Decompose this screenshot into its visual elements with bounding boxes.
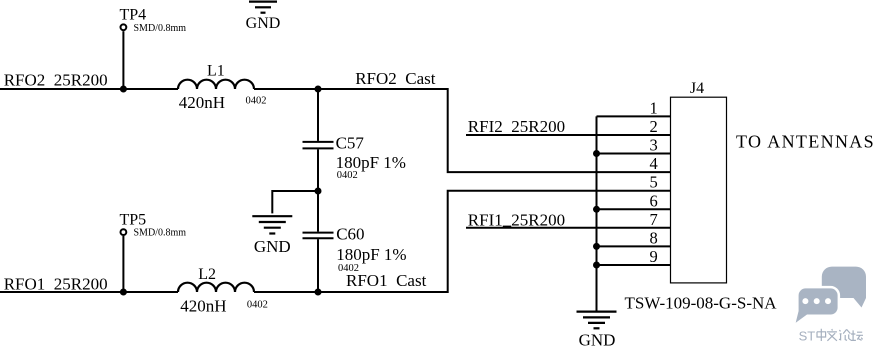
node junction bus pin 8 xyxy=(593,243,600,250)
wire L2 to node xyxy=(254,291,318,293)
svg-text:L1: L1 xyxy=(207,63,225,80)
ground symbol middle xyxy=(252,216,292,233)
svg-text:0402: 0402 xyxy=(247,300,268,311)
net name underscore on wire xyxy=(503,225,512,227)
svg-text:TSW-109-08-G-S-NA: TSW-109-08-G-S-NA xyxy=(625,294,778,313)
wire pin 8 xyxy=(597,245,671,247)
svg-text:C57: C57 xyxy=(336,134,365,153)
ground symbol top (cut off) xyxy=(249,2,277,13)
svg-text:TP4: TP4 xyxy=(120,7,147,24)
wire L1 to node xyxy=(254,88,318,90)
svg-text:RFO2 Cast: RFO2 Cast xyxy=(355,69,436,88)
node junction bus pin 6 xyxy=(593,206,600,213)
svg-text:0402: 0402 xyxy=(337,170,358,181)
wire pin 9 xyxy=(597,264,671,266)
wire RFO2_Cast to pin 4 xyxy=(318,89,671,172)
watermark text CJK strokes xyxy=(817,329,863,341)
node junction TP4/rail xyxy=(120,86,127,93)
test point TP5 xyxy=(121,229,127,235)
node junction bus pin 3 xyxy=(593,150,600,157)
svg-text:C60: C60 xyxy=(336,225,364,244)
svg-text:J4: J4 xyxy=(690,80,704,97)
svg-text:RFI2 25R200: RFI2 25R200 xyxy=(468,117,565,136)
svg-text:0402: 0402 xyxy=(246,96,267,107)
wire pin 3 xyxy=(597,153,671,155)
svg-text:420nH: 420nH xyxy=(179,93,225,112)
wire RFO1_Cast to pin 5 xyxy=(318,191,671,292)
svg-text:9: 9 xyxy=(650,247,658,266)
inductor L1 xyxy=(178,80,254,89)
svg-text:180pF 1%: 180pF 1% xyxy=(336,153,406,172)
capacitor C60 xyxy=(303,191,334,292)
wire TP5 stem xyxy=(122,236,124,292)
svg-text:SMD/0.8mm: SMD/0.8mm xyxy=(134,23,187,34)
wire RFI2 to pin 2 xyxy=(466,134,671,136)
svg-text:4: 4 xyxy=(650,154,658,173)
wire pin 6 xyxy=(597,208,671,210)
svg-text:GND: GND xyxy=(579,330,616,349)
svg-text:7: 7 xyxy=(650,210,658,229)
watermark chat bubble small xyxy=(796,288,838,322)
wire RFO2 rail left xyxy=(0,88,178,90)
watermark bubble dots xyxy=(802,298,831,304)
wire RFO1 rail left xyxy=(0,291,178,293)
svg-text:3: 3 xyxy=(650,136,658,155)
inductor L2 xyxy=(178,283,254,292)
svg-text:RFO2 25R200: RFO2 25R200 xyxy=(4,71,108,90)
connector J4 body xyxy=(671,97,727,283)
wire ground bus xyxy=(596,116,598,311)
node junction C60 bottom xyxy=(315,289,322,296)
node junction TP5/rail xyxy=(120,289,127,296)
watermark chat bubble large xyxy=(822,267,866,308)
svg-text:L2: L2 xyxy=(198,266,216,283)
svg-text:1: 1 xyxy=(650,98,658,117)
capacitor C57 xyxy=(303,89,334,191)
wire RFI1 to pin 7 xyxy=(466,227,671,229)
svg-text:8: 8 xyxy=(650,228,658,247)
svg-text:GND: GND xyxy=(246,15,281,32)
svg-text:RFO1 Cast: RFO1 Cast xyxy=(346,271,427,290)
wire to ground xyxy=(272,191,318,213)
svg-text:180pF 1%: 180pF 1% xyxy=(336,245,406,264)
svg-text:TP5: TP5 xyxy=(120,211,147,228)
svg-text:2: 2 xyxy=(650,117,658,136)
ground symbol bottom xyxy=(577,312,617,329)
node junction C57 top xyxy=(315,86,322,93)
svg-text:RFO1 25R200: RFO1 25R200 xyxy=(4,274,108,293)
wire TP4 stem xyxy=(122,31,124,89)
svg-text:SMD/0.8mm: SMD/0.8mm xyxy=(134,228,187,239)
svg-text:420nH: 420nH xyxy=(180,296,226,315)
test point TP4 xyxy=(121,24,127,30)
wire pin 1 xyxy=(597,115,671,117)
svg-text:6: 6 xyxy=(650,191,658,210)
node junction bus pin 9 xyxy=(593,262,600,269)
svg-text:ST: ST xyxy=(799,328,816,343)
svg-text:TO ANTENNAS: TO ANTENNAS xyxy=(736,132,875,152)
svg-text:RFI1 25R200: RFI1 25R200 xyxy=(468,210,565,229)
node junction C57/C60/GND xyxy=(315,188,322,195)
svg-text:GND: GND xyxy=(254,237,291,256)
svg-text:5: 5 xyxy=(650,173,658,192)
